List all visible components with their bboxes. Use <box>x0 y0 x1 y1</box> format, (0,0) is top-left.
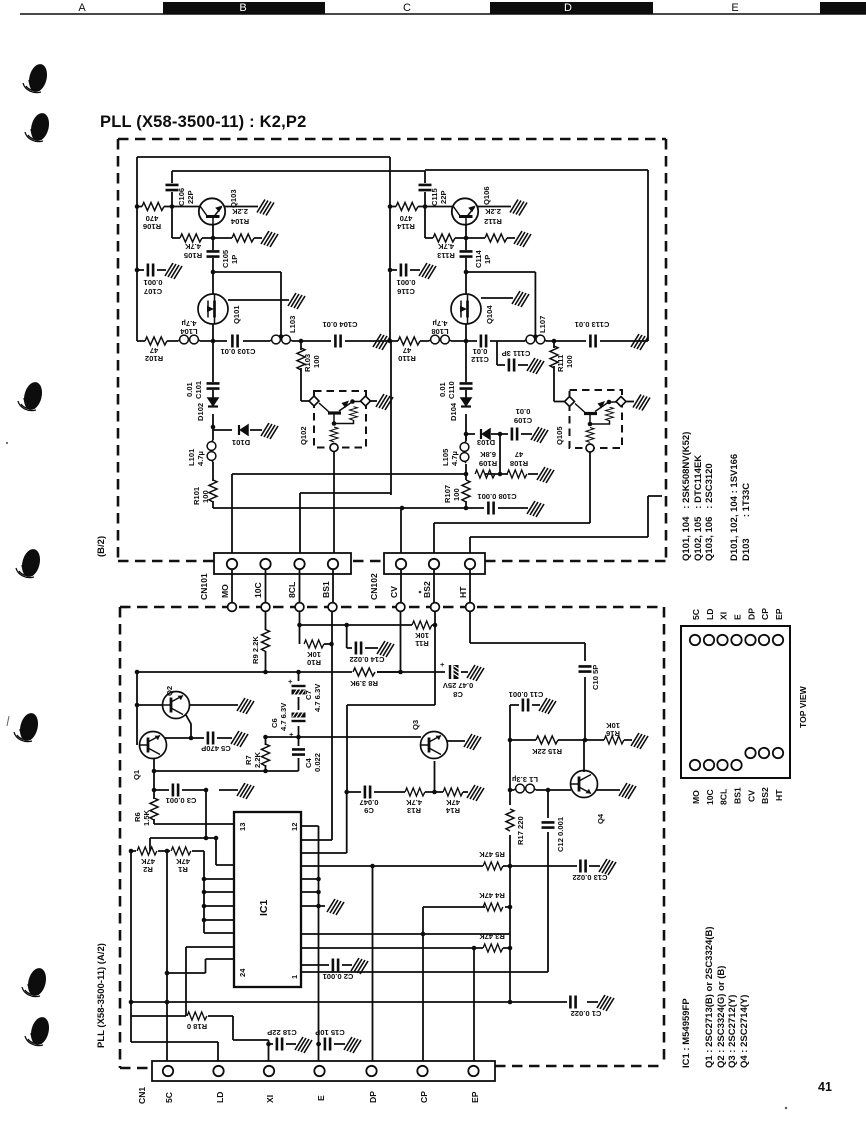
svg-text:C18 22P: C18 22P <box>267 1028 297 1037</box>
node 8CL boundary <box>295 603 304 612</box>
wire Q4 emitter ground <box>596 789 620 791</box>
svg-text:R113: R113 <box>437 251 455 260</box>
speck dot <box>785 1107 787 1109</box>
svg-text:C108 0.001: C108 0.001 <box>477 492 517 501</box>
connector top view box <box>681 626 790 778</box>
wire C9 R13 R14 row <box>347 791 468 793</box>
wire Q106 emitter row <box>425 224 515 238</box>
ruler bar segment B <box>163 2 325 14</box>
svg-text:1P: 1P <box>483 255 492 264</box>
resistor R111 <box>550 346 558 368</box>
svg-text:22P: 22P <box>186 190 195 204</box>
node BS2 boundary <box>431 603 440 612</box>
svg-text:D103 : 1T33C: D103 : 1T33C <box>741 483 752 561</box>
node CV boundary <box>396 603 405 612</box>
junction LD net on C1 row <box>129 1000 134 1005</box>
wire C114 column <box>466 238 535 336</box>
svg-text:L103: L103 <box>288 316 297 333</box>
capacitor C110 <box>460 383 473 388</box>
svg-text:47: 47 <box>403 346 411 355</box>
junction Q106 emitter <box>464 236 469 241</box>
junction bus bottom on C1 row <box>508 1000 513 1005</box>
ink blob 5 <box>14 711 41 743</box>
svg-text:Q2 : 2SC3324(G) or (B): Q2 : 2SC3324(G) or (B) <box>716 966 727 1068</box>
svg-text:8CL: 8CL <box>719 789 729 805</box>
wire IC left comb <box>204 879 234 933</box>
svg-text:DP: DP <box>368 1091 378 1103</box>
node 10C boundary <box>261 603 270 612</box>
svg-text:Q101: Q101 <box>232 305 241 324</box>
junction CP tap <box>421 932 426 937</box>
wire Q103 base row <box>137 206 201 208</box>
wire C1 long row <box>131 1001 598 1003</box>
resistor R4 <box>483 903 503 911</box>
wire L105 column <box>465 434 467 441</box>
capacitor C2 <box>333 959 338 972</box>
wire 5C column <box>166 851 168 1061</box>
capacitor C112 <box>481 335 486 348</box>
svg-text:TOP VIEW: TOP VIEW <box>798 685 808 728</box>
junction R7 bottom <box>263 769 268 774</box>
junction C116-rail <box>388 268 393 273</box>
junction XI / C18 <box>266 1042 271 1047</box>
svg-text:Q101, 104 : 2SK508NV(K52): Q101, 104 : 2SK508NV(K52) <box>681 432 692 561</box>
svg-text:24: 24 <box>238 968 247 977</box>
ground Q105 <box>633 395 650 411</box>
svg-text:Q104: Q104 <box>485 305 494 324</box>
svg-text:BS2: BS2 <box>422 581 432 598</box>
wire MO riser and row y474 <box>232 464 538 558</box>
capacitor C8 electrolytic <box>450 665 460 679</box>
ground C111 <box>527 358 544 374</box>
ground C13 <box>599 859 616 875</box>
svg-text:4.7µ: 4.7µ <box>182 319 197 328</box>
wire C3 row <box>154 789 238 791</box>
svg-text:R7: R7 <box>244 755 253 765</box>
junction R111 top <box>552 339 557 344</box>
wire C2 row <box>301 964 352 966</box>
svg-text:Q4: Q4 <box>596 813 605 824</box>
wire Q104 to ground <box>481 297 513 299</box>
svg-text:C101: C101 <box>194 380 203 399</box>
ground C109 <box>531 427 548 443</box>
connector CN102 <box>384 553 485 574</box>
wire 8CL drop <box>300 570 347 644</box>
svg-text:4.7µ: 4.7µ <box>196 451 205 466</box>
svg-text:C2 0.001: C2 0.001 <box>322 972 354 981</box>
wire R107 column <box>465 501 467 508</box>
fet Q101 <box>198 294 228 324</box>
svg-text:5C: 5C <box>164 1092 174 1103</box>
wire R103 drop <box>301 341 309 401</box>
svg-text:R108: R108 <box>510 459 528 468</box>
junction DP on R5 row <box>370 864 375 869</box>
junction bus left end <box>135 670 140 675</box>
junction R4 on bus <box>508 905 513 910</box>
svg-text:1.5K: 1.5K <box>142 809 151 826</box>
resistor R112 <box>485 234 507 242</box>
wire HT path <box>470 496 662 558</box>
svg-text:HT: HT <box>458 586 468 598</box>
junction R107 bottom on C108 row <box>464 506 469 511</box>
svg-text:E: E <box>316 1095 326 1101</box>
inductor L105 <box>460 441 469 463</box>
svg-text:R111: R111 <box>556 354 565 372</box>
resistor R113 <box>433 234 455 242</box>
diode D103 <box>481 429 490 439</box>
capacitor C115 <box>419 185 432 190</box>
wire y934 row <box>301 933 510 935</box>
svg-text:MO: MO <box>691 790 701 804</box>
svg-text:C1 0.022: C1 0.022 <box>571 1009 602 1018</box>
svg-text:D: D <box>564 2 572 14</box>
svg-text:+: + <box>288 677 293 686</box>
svg-text:C13 0.022: C13 0.022 <box>572 873 607 882</box>
wire 10C riser to R9 <box>265 570 267 672</box>
junction E comb 2 <box>316 890 321 895</box>
svg-text:C111 3P: C111 3P <box>502 349 531 358</box>
resistor R11 <box>412 621 432 629</box>
svg-text:C4: C4 <box>304 758 313 768</box>
capacitor C103 <box>232 335 237 348</box>
svg-text:C12 0.001: C12 0.001 <box>556 816 565 852</box>
svg-text:12: 12 <box>290 823 299 831</box>
junction R2-R1 / 5C net <box>165 849 170 854</box>
wire C10 to node <box>584 677 586 740</box>
junction C3 left <box>152 788 157 793</box>
junction C3 net on y838 <box>204 836 209 841</box>
wire C110 D104 column <box>465 341 467 440</box>
svg-text:C116: C116 <box>397 287 415 296</box>
svg-text:4.7µ: 4.7µ <box>433 319 448 328</box>
wire R111 column <box>554 341 565 402</box>
capacitor C18 <box>277 1038 282 1051</box>
svg-text:R107: R107 <box>443 485 452 503</box>
svg-text:4.7K: 4.7K <box>184 242 201 251</box>
capacitor C15 <box>325 1038 330 1051</box>
svg-text:10K: 10K <box>415 631 429 640</box>
resistor R17 <box>506 809 514 831</box>
wire Q2 base <box>137 704 162 706</box>
wire C116 row <box>390 269 420 271</box>
svg-text:470: 470 <box>400 214 413 223</box>
junction C6-C4 / Q3 base row <box>296 735 301 740</box>
junction R10-BS1 <box>329 642 334 647</box>
top view row1 circles <box>690 635 783 645</box>
svg-text:R17 220: R17 220 <box>516 816 525 845</box>
wire Q3 collector ground <box>447 740 465 742</box>
svg-text:4.7µ: 4.7µ <box>450 451 459 466</box>
wire C106 top link <box>172 171 425 238</box>
svg-text:C109: C109 <box>514 416 532 425</box>
dashed border top box <box>118 139 666 561</box>
connector CN1 <box>152 1061 495 1081</box>
resistor R107 <box>462 480 470 502</box>
connector CN101 <box>214 553 351 574</box>
wire C12 column <box>301 790 548 972</box>
junction EP on R3 row <box>472 946 477 951</box>
svg-text:BS1: BS1 <box>733 787 743 804</box>
wire R7 column <box>265 737 267 771</box>
ink blob 4 <box>16 547 43 579</box>
wire CV riser <box>400 508 402 558</box>
svg-text:C114: C114 <box>474 249 483 268</box>
wire C11 branch <box>510 705 540 740</box>
speck dot <box>6 442 8 444</box>
capacitor C13 <box>580 860 585 873</box>
svg-text:Q105: Q105 <box>555 426 564 445</box>
svg-text:R18 0: R18 0 <box>187 1022 207 1031</box>
svg-text:PLL (X58-3500-11) : K2,P2: PLL (X58-3500-11) : K2,P2 <box>100 113 306 131</box>
resistor R13 <box>405 788 425 796</box>
wire LD column <box>131 851 218 1061</box>
svg-text:47K: 47K <box>141 857 155 866</box>
speck dot <box>419 591 422 594</box>
ground C18 <box>295 1037 312 1053</box>
svg-text:0.01: 0.01 <box>185 381 194 397</box>
capacitor C106 <box>166 185 179 190</box>
svg-text:Q102, 105 : DTC114EK: Q102, 105 : DTC114EK <box>693 455 704 561</box>
wire Q103 emitter row <box>172 224 262 238</box>
ground C3 <box>237 783 254 799</box>
wire rail x391 <box>390 157 391 495</box>
svg-text:D101, 102, 104 : 1SV166: D101, 102, 104 : 1SV166 <box>729 454 740 561</box>
capacitor C113 <box>590 335 595 348</box>
svg-text:2.2K: 2.2K <box>253 751 262 768</box>
wire C101 D102 column <box>212 341 214 440</box>
svg-text:CP: CP <box>760 608 770 620</box>
junction R11-BS2 <box>433 623 438 628</box>
svg-text:R101: R101 <box>192 486 201 505</box>
svg-text:0.001: 0.001 <box>396 278 416 287</box>
wire C18 C15 row <box>269 1043 346 1045</box>
node HT boundary <box>466 603 475 612</box>
svg-text:10K: 10K <box>606 721 620 730</box>
IC1 body <box>234 812 301 987</box>
junction Q103 emitter <box>211 236 216 241</box>
node BS1 boundary <box>328 603 337 612</box>
svg-text:C9: C9 <box>364 806 374 815</box>
svg-text:C: C <box>403 2 411 14</box>
wire Q105 ground stub <box>626 401 634 403</box>
wire 5C jog pin <box>167 959 234 973</box>
svg-text:XI: XI <box>719 612 729 620</box>
svg-text:0.047: 0.047 <box>359 798 378 807</box>
wire left vertical x137 <box>136 157 138 341</box>
svg-text:41: 41 <box>818 1080 832 1094</box>
svg-text:MO: MO <box>220 584 230 598</box>
transistor Q3 <box>421 732 448 759</box>
svg-text:47: 47 <box>515 450 523 459</box>
ground R16 <box>631 733 648 749</box>
wire main row y341 right <box>391 324 648 341</box>
resistor R104 <box>232 234 254 242</box>
svg-text:XI: XI <box>265 1095 275 1103</box>
ink blob 3 <box>18 380 45 412</box>
ground Q106 collector <box>510 200 527 216</box>
capacitor C1 <box>570 996 575 1009</box>
wire IC right pin y853 <box>301 852 347 854</box>
resistor R3 <box>483 944 503 952</box>
wire left pin y947 <box>186 947 234 1016</box>
svg-text:100: 100 <box>452 488 461 501</box>
svg-text:EP: EP <box>470 1091 480 1103</box>
junction C114 / Q104 drain <box>464 270 469 275</box>
svg-text:R105: R105 <box>183 251 202 260</box>
svg-text:CV: CV <box>389 586 399 598</box>
svg-text:C5 470P: C5 470P <box>201 744 231 753</box>
junction C105 / Q101 drain <box>211 270 216 275</box>
svg-text:R110: R110 <box>398 354 416 363</box>
svg-text:4.7 6.3V: 4.7 6.3V <box>313 683 322 712</box>
junction IC1 pin comb 3 <box>202 904 207 909</box>
junction R109-R108 <box>498 472 503 477</box>
junction L105-R107 on MO row <box>464 472 469 477</box>
ground C14 <box>377 641 394 657</box>
wire main row y341 left <box>137 324 392 341</box>
svg-text:6.8K: 6.8K <box>479 450 496 459</box>
ground R108 <box>537 467 554 483</box>
svg-text:A: A <box>78 2 86 14</box>
oscillator module Q102 <box>314 391 366 448</box>
junction R5-C13 bus top <box>508 864 513 869</box>
svg-text:22P: 22P <box>439 190 448 204</box>
inductor L107 <box>524 335 546 344</box>
junction Q103 base / C106 <box>170 204 175 209</box>
svg-text:R3 47K: R3 47K <box>479 932 505 941</box>
svg-text:R2: R2 <box>143 865 153 874</box>
ground Q104 <box>512 291 529 307</box>
svg-text:C107: C107 <box>144 287 162 296</box>
junction CV node <box>400 506 405 511</box>
svg-text:Q4 : 2SC2714(Y): Q4 : 2SC2714(Y) <box>739 995 750 1068</box>
svg-text:L107: L107 <box>538 316 547 333</box>
diode D104 <box>461 398 471 407</box>
wire C107 row <box>137 269 166 271</box>
junction C107-rail <box>135 268 140 273</box>
svg-text:C110: C110 <box>447 381 456 399</box>
svg-text:E: E <box>731 2 738 14</box>
wire top rail left cell <box>137 156 390 158</box>
svg-text:Q106: Q106 <box>482 186 491 205</box>
svg-text:R10: R10 <box>307 658 321 667</box>
junction Q104 source on row <box>464 339 469 344</box>
svg-text:C103 0.01: C103 0.01 <box>220 347 256 356</box>
ink blob 1 <box>23 62 50 94</box>
ground C1 <box>597 995 614 1011</box>
wire R4 row <box>423 906 510 908</box>
transistor Q106 <box>452 198 478 224</box>
svg-text:C7: C7 <box>304 690 313 700</box>
wire resistor bus x510 <box>509 866 511 1002</box>
wire D103 row <box>466 433 532 435</box>
svg-text:0.022: 0.022 <box>313 753 322 772</box>
junction E comb 3 ground <box>316 904 321 909</box>
svg-text:BS2: BS2 <box>760 787 770 804</box>
wire Q1 emitter <box>153 758 155 790</box>
svg-text:Q102: Q102 <box>299 426 308 445</box>
svg-text:Q3 : 2SC2712(Y): Q3 : 2SC2712(Y) <box>727 995 738 1068</box>
svg-text:Q1: Q1 <box>132 769 141 780</box>
svg-text:C112: C112 <box>471 355 489 364</box>
svg-text:0.01: 0.01 <box>438 381 447 397</box>
resistor R110 <box>398 337 420 345</box>
junction R9 bottom on 5V bus <box>263 670 268 675</box>
junction CV on 5V bus <box>398 670 403 675</box>
wire IC right comb stubs <box>301 879 325 906</box>
wire supply bus y672 <box>137 671 468 673</box>
ground C15 <box>344 1037 361 1053</box>
ground C108 <box>527 501 544 517</box>
svg-text:C3 0.001: C3 0.001 <box>165 796 197 805</box>
wire Q1 Q2 base column <box>136 672 138 745</box>
svg-text:R102: R102 <box>145 354 163 363</box>
svg-text:5C: 5C <box>691 609 701 620</box>
ground D101 <box>261 423 278 439</box>
ruler bar segment right <box>820 2 866 14</box>
svg-text:0.47 25V: 0.47 25V <box>442 681 473 690</box>
svg-text:C11 0.001: C11 0.001 <box>508 690 543 699</box>
dashed border bottom box <box>120 607 664 1068</box>
wire Q4 collector <box>583 740 585 772</box>
ground R112 <box>514 231 531 247</box>
svg-text:Q1 : 2SC2713(B) or 2SC3324(B): Q1 : 2SC2713(B) or 2SC3324(B) <box>704 927 715 1069</box>
svg-text:R15 22K: R15 22K <box>532 747 562 756</box>
wire R8 tail <box>377 671 401 673</box>
svg-text:IC1 : M54959FP: IC1 : M54959FP <box>681 998 692 1068</box>
resistor R101 <box>209 480 217 502</box>
transistor Q103 <box>199 198 225 224</box>
svg-text:47K: 47K <box>446 798 460 807</box>
wire C105 column <box>213 238 281 336</box>
capacitor C10 <box>579 666 592 671</box>
wire BS2 drop <box>347 570 435 792</box>
speck mark <box>7 716 9 726</box>
junction Q3 emitter <box>432 790 437 795</box>
resistor R109 <box>475 470 495 478</box>
ground C11 <box>539 698 556 714</box>
transistor Q2 <box>163 692 190 719</box>
resistor R2 <box>137 847 157 855</box>
capacitor C14 <box>356 642 361 655</box>
wire Q106 right to ground <box>477 206 511 208</box>
wire R15 R16 row <box>510 739 632 741</box>
svg-text:2.2K: 2.2K <box>484 207 501 216</box>
wire DP drop <box>372 866 374 1061</box>
svg-text:13: 13 <box>238 823 247 831</box>
svg-text:LD: LD <box>215 1092 225 1103</box>
svg-text:1P: 1P <box>230 255 239 264</box>
ground Q2 <box>237 698 254 714</box>
junction R2 left <box>129 849 134 854</box>
svg-text:C105: C105 <box>221 249 230 268</box>
capacitor C107 <box>148 264 153 277</box>
svg-text:R1: R1 <box>177 865 187 874</box>
junction 8CL-R10/R11 row <box>297 623 302 628</box>
resistor R114 <box>396 203 418 211</box>
resistor R6 <box>150 798 158 820</box>
junction R103 top <box>299 339 304 344</box>
wire IC right pin12 <box>301 825 319 827</box>
svg-text:PLL (X58-3500-11) (A/2): PLL (X58-3500-11) (A/2) <box>96 943 107 1048</box>
svg-text:Q3: Q3 <box>411 720 420 730</box>
svg-text:R109: R109 <box>479 459 497 468</box>
svg-text:C10 5P: C10 5P <box>591 665 600 690</box>
svg-text:10C: 10C <box>705 789 715 805</box>
svg-text:DP: DP <box>747 608 757 620</box>
svg-text:C106: C106 <box>177 188 186 206</box>
junction pin row y838 <box>214 836 219 841</box>
